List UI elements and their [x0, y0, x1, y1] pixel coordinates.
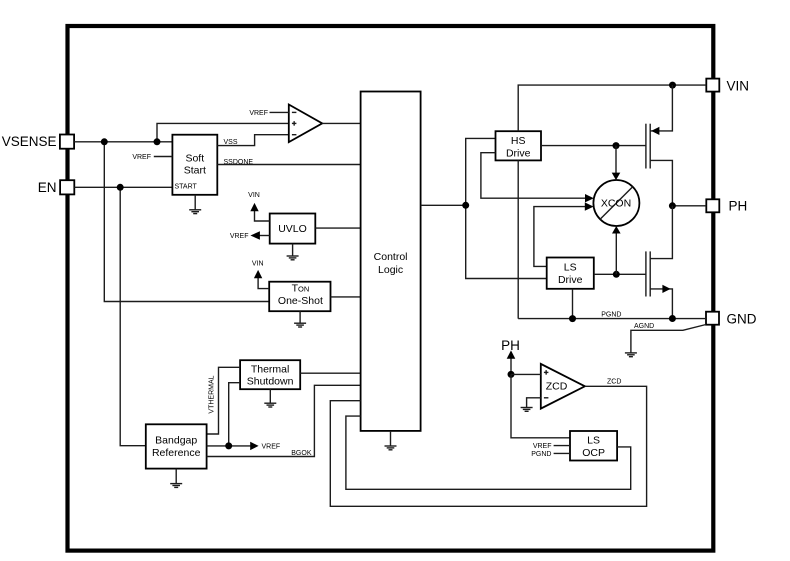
wire LS Drive to XCON lower-left arrow [534, 202, 594, 266]
svg-text:Start: Start [184, 165, 206, 177]
junction EN [117, 184, 124, 191]
wire ZCD minus input to ground [527, 398, 541, 408]
comparator U1 [289, 105, 322, 143]
svg-text:VREF: VREF [533, 443, 552, 450]
ground below UVLO [287, 244, 299, 260]
svg-text:Control: Control [374, 251, 408, 263]
svg-text:AGND: AGND [634, 323, 654, 330]
svg-text:SSDONE: SSDONE [224, 159, 254, 166]
wire VIN rail to HS Drive [518, 85, 706, 131]
svg-text:VREF: VREF [132, 154, 151, 161]
wire TON output [331, 296, 361, 298]
svg-text:PH: PH [501, 338, 520, 353]
ground AGND [625, 353, 637, 357]
svg-text:GND: GND [727, 311, 757, 326]
pin VIN [706, 78, 749, 93]
wire PH to LS OCP [511, 374, 570, 437]
block LS OCP [570, 431, 617, 461]
ground below Thermal Shutdown [264, 389, 276, 407]
wire AGND [631, 323, 706, 353]
ground below Soft Start [189, 195, 201, 214]
wire ZCD plus input [511, 373, 541, 375]
svg-text:Shutdown: Shutdown [247, 376, 294, 388]
wire ZCD output loop to Control Logic [330, 379, 646, 507]
wire Control Logic output to LS Drive [421, 205, 547, 278]
svg-text:PGND: PGND [601, 312, 621, 319]
svg-text:VIN: VIN [727, 78, 750, 93]
svg-text:VREF: VREF [262, 444, 281, 451]
junction LS gate [613, 271, 620, 278]
wire LS Drive to low-side gate [594, 273, 646, 275]
svg-text:VIN: VIN [252, 260, 264, 267]
svg-text:VREF: VREF [230, 233, 249, 240]
svg-text:HS: HS [511, 135, 526, 147]
svg-text:EN: EN [38, 180, 57, 195]
ground ZCD [521, 408, 533, 412]
svg-text:BGOK: BGOK [291, 450, 312, 457]
svg-text:PGND: PGND [531, 451, 551, 458]
svg-text:Logic: Logic [378, 264, 403, 276]
svg-text:XCON: XCON [601, 198, 631, 210]
svg-text:PH: PH [729, 199, 748, 214]
ground below Bandgap Reference [170, 469, 182, 488]
wire PGND stub into LS OCP [531, 451, 570, 458]
block Soft Start [172, 135, 217, 195]
svg-text:Reference: Reference [152, 447, 201, 459]
wire TON VIN arrow [252, 260, 269, 288]
wire HS Drive down to PGND [517, 160, 519, 318]
wire Control Logic output up to HS Drive [466, 138, 496, 205]
pin GND [706, 311, 757, 326]
transistor Q1 high-side MOSFET [646, 85, 673, 206]
wire PH node [672, 205, 706, 207]
junction VSENSE b [154, 138, 161, 145]
svg-text:TON: TON [292, 283, 310, 295]
block Bandgap Reference [146, 424, 207, 468]
wire SSDONE [217, 159, 360, 166]
wire VTHERMAL (Thermal Shutdown to Bandgap) [207, 367, 241, 434]
transistor Q2 low-side MOSFET [646, 206, 673, 319]
wire comparator output [322, 122, 360, 124]
wire VSS (Soft Start to comparator minus) [217, 135, 288, 146]
junction VIN [669, 82, 676, 89]
svg-text:START: START [175, 184, 198, 191]
wire UVLO VIN arrow [248, 192, 270, 221]
block TON One-Shot [269, 282, 330, 312]
block Control Logic [361, 92, 421, 431]
wire HS Drive to high-side gate [541, 145, 646, 147]
wire to XCON bottom arrow [612, 226, 621, 274]
wire HS Drive to XCON upper-left arrow [481, 153, 594, 203]
svg-text:VIN: VIN [248, 192, 260, 199]
wire Thermal Shutdown to VREF node [229, 383, 240, 446]
IC boundary [68, 26, 714, 551]
svg-text:Drive: Drive [558, 274, 583, 286]
wire to XCON top arrow [612, 146, 621, 181]
wire LS OCP output loop to Control Logic [346, 416, 631, 489]
wire EN net [74, 187, 172, 445]
svg-text:ZCD: ZCD [607, 379, 621, 386]
svg-text:Bandgap: Bandgap [155, 435, 197, 447]
svg-text:Soft: Soft [185, 153, 204, 165]
svg-text:VREF: VREF [249, 110, 268, 117]
junction ZCD plus [508, 371, 515, 378]
svg-text:ZCD: ZCD [546, 381, 568, 393]
block UVLO [270, 214, 316, 244]
svg-text:VSENSE: VSENSE [2, 134, 57, 149]
op-amp ZCD [541, 364, 585, 409]
svg-text:VSS: VSS [224, 139, 238, 146]
pin VSENSE [2, 134, 74, 149]
svg-text:OCP: OCP [582, 447, 605, 459]
node PH (label and arrow) [501, 338, 520, 375]
junction VREF node [225, 442, 232, 449]
svg-text:VTHERMAL: VTHERMAL [209, 375, 216, 413]
svg-text:LS: LS [564, 262, 577, 274]
pin EN [38, 180, 75, 195]
wire UVLO VREF arrow [230, 231, 270, 240]
wire VREF stub into Soft Start [132, 154, 172, 161]
ground below Control Logic [385, 431, 397, 450]
wire VSENSE net [74, 123, 289, 301]
wire UVLO output [315, 227, 360, 229]
wire PGND rail [518, 312, 706, 319]
block LS Drive [547, 258, 594, 289]
wire VREF stub into comparator [249, 110, 288, 117]
wire VREF stub into LS OCP [533, 443, 570, 450]
ground below TON One-Shot [294, 311, 306, 327]
wire VREF output arrow [207, 442, 281, 451]
XCON circle [593, 180, 639, 226]
svg-text:Drive: Drive [506, 147, 531, 159]
wire Thermal Shutdown output [300, 372, 360, 374]
junction HS gate [613, 142, 620, 149]
junction control output [462, 202, 469, 209]
junction PGND a [569, 315, 576, 322]
wire BGOK [207, 385, 361, 457]
block HS Drive [496, 131, 542, 160]
svg-text:UVLO: UVLO [278, 223, 307, 235]
junction VSENSE a [101, 138, 108, 145]
svg-text:LS: LS [587, 434, 600, 446]
pin PH [706, 199, 747, 214]
block Thermal Shutdown [240, 360, 300, 389]
wire LS Drive to PGND [572, 289, 574, 319]
junction PGND b [669, 315, 676, 322]
svg-text:One-Shot: One-Shot [278, 295, 323, 307]
junction PH [669, 202, 676, 209]
svg-text:Thermal: Thermal [251, 364, 290, 376]
